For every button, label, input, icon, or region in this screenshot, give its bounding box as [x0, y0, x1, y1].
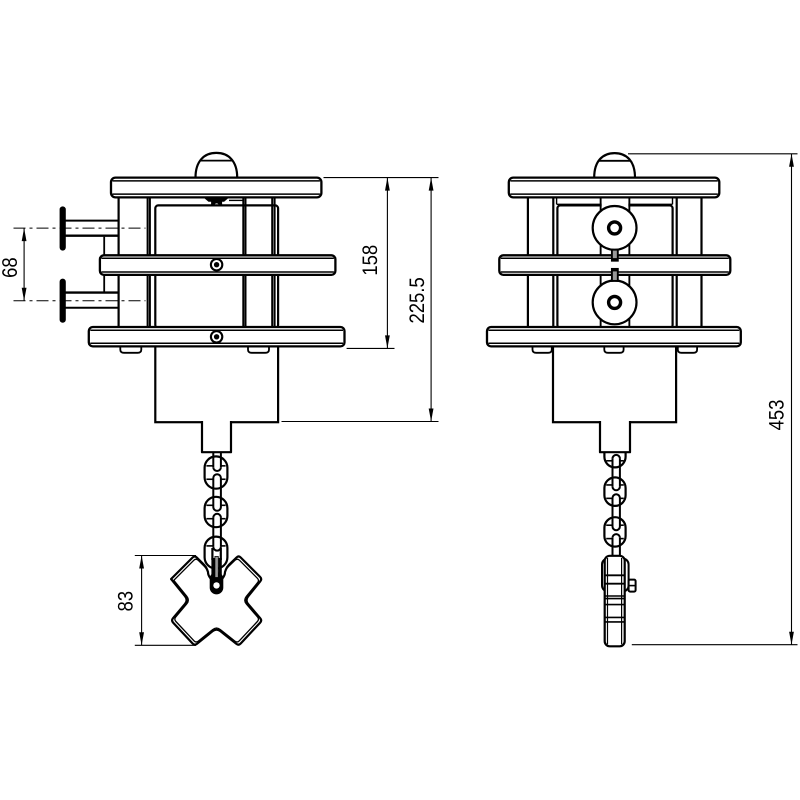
right view: chain oval link 2: [604, 517, 625, 546]
right view: chain bar link 3: [612, 538, 614, 557]
left view: clamp nut under plate: [206, 198, 227, 201]
dimension 225.5 text: [409, 278, 424, 323]
left view: chain bar link 3: [212, 518, 214, 547]
left view: right post: [242, 198, 244, 327]
right view: upper roller tab: [612, 250, 618, 261]
left view: chain oval link A: [205, 456, 228, 488]
left view: bottom plate lip lines: [90, 329, 343, 331]
left view: chain oval link B: [205, 497, 228, 527]
right view: dome cap: [594, 153, 635, 178]
left view: window box plate: [155, 205, 278, 328]
left view: stub connector plate edge: [103, 237, 105, 292]
right view: bottom plate lip lines: [489, 329, 740, 331]
right view: middle plate: [499, 255, 730, 275]
left view: bottom plate bolt: [211, 331, 222, 342]
left view: middle plate lip lines: [101, 257, 334, 259]
right view: middle plate lip lines: [501, 257, 729, 259]
left view: left foot: [120, 346, 141, 353]
right view: key bar inner lines: [607, 558, 609, 644]
right view: upper roller: [593, 206, 637, 250]
right view: right post: [676, 198, 678, 327]
left view: top plate lip lines: [113, 180, 320, 182]
left view: spacer line under top plate: [229, 199, 243, 201]
left view: lower pipe flange: [60, 279, 65, 322]
left view: middle plate: [100, 255, 336, 275]
left view: right foot: [248, 346, 269, 353]
left view: chain end link in key eye: [211, 548, 213, 560]
right view: chain oval link 1: [604, 477, 625, 506]
dimension 225.5 line: [430, 178, 432, 422]
right view: bottom plate: [487, 327, 741, 346]
right view: top plate lip lines: [510, 180, 718, 182]
dimension 68 line: [23, 228, 25, 301]
right view: key main bar: [605, 556, 625, 647]
left view: pipe bracket right edge: [147, 198, 149, 327]
left view: cross key handle outer: [171, 556, 261, 644]
right view: lower roller tab: [612, 269, 618, 281]
right view: left post: [527, 198, 529, 327]
dimension 68 centerline lower: [14, 300, 146, 302]
right view: spacer under top plate: [557, 203, 673, 205]
right view: key shoulder: [602, 559, 629, 592]
left view: dome cap: [196, 153, 238, 178]
dimension 453 line: [791, 154, 793, 645]
right view: chain bar link 2: [612, 498, 614, 527]
right view: chain bell link: [604, 437, 625, 467]
left view: bottom plate: [89, 327, 345, 346]
left view: cross key handle inner contour: [174, 559, 259, 642]
right view: top plate: [509, 178, 720, 198]
dimension 453 top extension line: [628, 153, 798, 155]
right view: key bar ridges: [605, 574, 625, 576]
left view: upper pipe stub: [65, 220, 119, 222]
right view: right foot: [678, 346, 697, 353]
right view: lower roller: [593, 281, 637, 325]
left view: body cylinder: [155, 340, 278, 422]
right view: center foot: [604, 346, 623, 353]
left view: chain bar link 2: [212, 478, 214, 507]
dimension 83 extension lines: [135, 555, 196, 557]
left view: chain bar link 1: [212, 445, 214, 467]
dimension 68 centerline upper: [14, 227, 146, 229]
left view: upper pipe flange: [60, 207, 65, 250]
dimension 83 text: [118, 592, 133, 611]
dimension 158 bottom extension line: [347, 347, 395, 349]
right view: key side knob: [629, 580, 636, 592]
dimension 453 bottom extension line: [632, 644, 798, 646]
dimension 453 text: [769, 400, 784, 430]
dimension 68 text: [2, 258, 17, 277]
dimension 158/225.5 top extension line: [324, 177, 439, 179]
dimension 225.5 bottom extension line: [282, 421, 439, 423]
dimension 158 text: [362, 246, 377, 275]
right view: body cylinder: [553, 340, 676, 422]
left view: middle plate bolt: [211, 259, 222, 270]
right view: chain bar link 1: [612, 459, 614, 487]
left view: lower pipe stub: [65, 291, 119, 293]
right view: neck block: [600, 421, 630, 452]
left view: chain oval link C: [205, 537, 228, 569]
left view: neck block: [202, 421, 231, 452]
right view: left foot: [533, 346, 552, 353]
dimension 158 line: [386, 178, 388, 349]
left view: pipe bracket left edge: [117, 198, 119, 327]
left view: top plate: [111, 178, 321, 198]
dimension 83 line: [141, 556, 143, 646]
right view: center column: [601, 199, 630, 329]
right view: window box plate: [557, 205, 672, 328]
